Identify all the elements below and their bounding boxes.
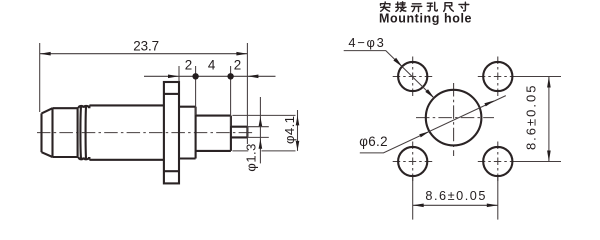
crimp ring left band arc: [79, 106, 82, 159]
leader arrow at TL hole edge: [393, 58, 402, 67]
crimp ring top humps: [78, 105, 89, 108]
hole TL crosshairs: [393, 57, 433, 97]
dia 4.1 dimension line vertical: [297, 110, 299, 151]
svg-text:φ4.1: φ4.1: [282, 116, 297, 144]
title chinese: 安装开孔尺寸: [381, 2, 469, 12]
hole TL circle: [398, 62, 427, 91]
hole BL crosshairs: [393, 142, 433, 182]
svg-text:2: 2: [234, 58, 241, 73]
center hole circle dia 6.2: [426, 90, 482, 146]
pin top edge: [231, 126, 248, 128]
char 装: [396, 2, 406, 12]
char 安: [381, 2, 390, 11]
svg-text:23.7: 23.7: [133, 39, 159, 54]
svg-text:Mounting hole: Mounting hole: [379, 11, 472, 25]
svg-text:8.6±0.05: 8.6±0.05: [425, 189, 485, 203]
nose cylinder top edge: [53, 107, 79, 109]
leader phi6.2: [360, 96, 506, 153]
mid section top edge: [179, 106, 196, 108]
bottom dimension line: [413, 204, 498, 206]
dia 1.3 extension line top: [247, 126, 268, 128]
crimp ring right band arc: [85, 106, 88, 159]
arrow 23.7 left: [40, 52, 51, 56]
bottom dimension extension left: [412, 177, 414, 220]
nose chamfer top: [42, 108, 53, 113]
extension line at pin start station: [230, 66, 232, 126]
dot at step station: [192, 73, 198, 79]
extension line at step station: [195, 66, 197, 115]
bottom arrow left: [413, 204, 424, 208]
dia 4.1 end vertical: [230, 116, 232, 151]
char 尺: [444, 3, 454, 12]
dia 1.3 dimension line vertical: [259, 97, 261, 163]
svg-text:4−φ3: 4−φ3: [348, 35, 383, 50]
right dimension extension bottom: [515, 161, 561, 163]
dia 1.3 upper arrow: [259, 117, 263, 126]
bottom arrow right: [487, 204, 498, 208]
right dimension extension top: [515, 76, 561, 78]
main body bottom edge: [89, 159, 163, 161]
big circle crosshair vertical: [453, 83, 455, 156]
dia 4.1 arrow up: [296, 115, 300, 125]
bottom dimension extension right: [497, 177, 499, 220]
dia 4.1 extension line bottom (right of text): [262, 150, 296, 152]
arrow at big circle lower-left edge: [419, 131, 429, 137]
dia 1.3 lower arrow: [259, 139, 263, 149]
flange plate: [164, 82, 179, 183]
char 寸: [459, 2, 469, 11]
dia 4.1 arrow down: [296, 141, 300, 151]
main body top edge: [89, 104, 163, 106]
leader 4-phi3: [344, 51, 435, 99]
hole TR crosshairs: [478, 57, 518, 97]
pin bottom edge: [231, 136, 248, 138]
crimp ring bottom humps: [78, 157, 89, 160]
svg-text:φ1.3: φ1.3: [243, 144, 258, 172]
arrow beyond big circle upper-right edge: [484, 100, 494, 106]
hole BL circle: [398, 147, 427, 176]
dimension 23.7 left extension line: [39, 43, 41, 112]
hole TR circle: [483, 62, 512, 91]
svg-text:φ6.2: φ6.2: [359, 134, 387, 149]
mid section bottom edge: [179, 157, 196, 159]
char 开: [412, 4, 422, 12]
extension line at flange right face: [178, 66, 180, 82]
svg-text:4: 4: [208, 58, 216, 73]
dia 1.3 extension line bottom: [247, 136, 268, 138]
dia 4.1 extension line bottom (left of text): [232, 150, 248, 152]
step edge vertical: [195, 107, 197, 159]
right arrow up: [547, 77, 551, 88]
pin tip vertical: [246, 127, 248, 138]
dimension line 23.7: [40, 53, 248, 55]
svg-text:8.6±0.05: 8.6±0.05: [523, 86, 538, 151]
big circle crosshair horizontal: [416, 117, 494, 119]
flange internal line upper: [164, 93, 179, 95]
hole BR circle: [483, 147, 512, 176]
centerline of connector side view: [37, 132, 254, 134]
connector outline: nose left face: [42, 82, 248, 183]
arrow 23.7 right: [236, 52, 247, 56]
dimension line 2-4-2: [144, 75, 276, 77]
char 孔: [427, 2, 437, 11]
right dimension line: [548, 77, 550, 162]
dia 4.1 extension line top: [232, 114, 295, 116]
dia 4.1 section bottom edge: [196, 150, 231, 152]
nose cylinder bottom edge: [53, 156, 79, 158]
dia 4.1 section top edge: [196, 115, 231, 117]
arrow pointing left at pin tip: [247, 75, 258, 79]
svg-text:2: 2: [185, 58, 192, 73]
nose chamfer end vertical: [51, 108, 53, 157]
dot at pin start station: [227, 73, 233, 79]
shared right extension line at pin tip: [246, 43, 248, 144]
nose back edge vertical: [77, 108, 79, 157]
right arrow down: [547, 151, 551, 162]
flange internal line lower: [164, 170, 179, 172]
nose chamfer bottom: [42, 152, 53, 157]
hole BR crosshairs: [478, 142, 518, 182]
leader arrow at big circle upper-left edge: [425, 89, 434, 98]
arrow pointing right at flange face: [168, 75, 179, 79]
